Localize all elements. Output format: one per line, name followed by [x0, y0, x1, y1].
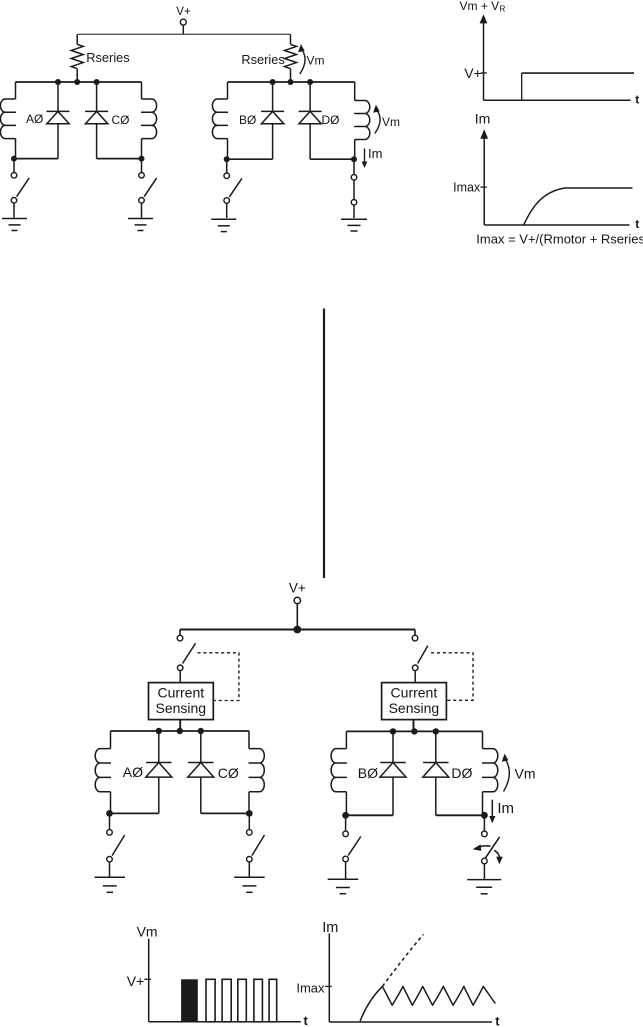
svg-text:Vm: Vm: [382, 115, 400, 129]
svg-text:V+: V+: [289, 580, 306, 595]
svg-text:BØ: BØ: [239, 113, 256, 127]
svg-text:Imax: Imax: [453, 180, 481, 194]
svg-text:Sensing: Sensing: [156, 700, 207, 716]
svg-text:Im: Im: [497, 800, 514, 817]
svg-text:Im: Im: [475, 111, 491, 127]
svg-text:Imax: Imax: [296, 981, 325, 996]
svg-text:Rseries: Rseries: [241, 52, 284, 67]
svg-text:Vm + VR: Vm + VR: [460, 0, 506, 14]
svg-text:BØ: BØ: [358, 765, 378, 781]
svg-text:DØ: DØ: [451, 765, 472, 781]
svg-text:V+: V+: [176, 6, 191, 18]
svg-text:Current: Current: [157, 685, 204, 701]
svg-text:Rseries: Rseries: [86, 50, 129, 65]
svg-text:Vm: Vm: [307, 54, 325, 68]
svg-text:Sensing: Sensing: [389, 700, 440, 716]
svg-text:V+: V+: [127, 973, 145, 989]
svg-text:AØ: AØ: [26, 112, 43, 126]
svg-text:t: t: [635, 217, 639, 231]
svg-text:DØ: DØ: [322, 113, 340, 127]
svg-text:t: t: [304, 1013, 309, 1027]
svg-text:Vm: Vm: [137, 923, 158, 939]
svg-text:Imax = V+/(Rmotor + Rseries): Imax = V+/(Rmotor + Rseries): [476, 231, 643, 246]
svg-text:t: t: [635, 92, 639, 106]
svg-text:CØ: CØ: [218, 765, 239, 781]
svg-text:AØ: AØ: [123, 764, 143, 780]
svg-text:V+: V+: [464, 65, 482, 81]
svg-text:CØ: CØ: [112, 113, 130, 127]
svg-text:Im: Im: [322, 920, 338, 936]
svg-text:Vm: Vm: [515, 765, 536, 781]
svg-text:t: t: [495, 1014, 500, 1027]
svg-text:Current: Current: [391, 685, 438, 701]
svg-text:Im: Im: [368, 146, 382, 161]
